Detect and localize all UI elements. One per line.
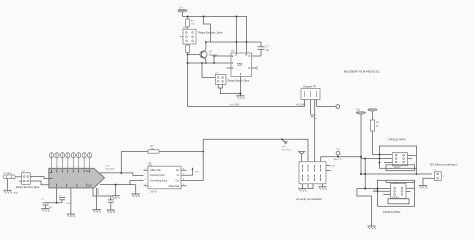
svg-text:Offset Null: Offset Null — [169, 185, 180, 188]
transistor Q3 TIP32C body — [391, 182, 407, 199]
node output junctions — [360, 173, 362, 175]
wire third npn entry — [384, 162, 392, 164]
capacitor C1 10n — [256, 42, 271, 56]
svg-text:+V: +V — [176, 175, 179, 177]
wire R2 down to node — [187, 53, 189, 64]
ground under capsule — [3, 190, 11, 193]
svg-text:Gray 908: Gray 908 — [105, 167, 115, 170]
node gnd junction — [239, 93, 241, 95]
wire out vertical — [202, 139, 204, 180]
wire gnd drop mid — [115, 185, 117, 196]
wire chain down to A-LOAD rail — [187, 63, 189, 107]
svg-text:2: 2 — [56, 166, 57, 168]
wire R1 to RV1 — [187, 27, 189, 29]
svg-text:12V: 12V — [356, 110, 361, 112]
node feedback tap — [120, 172, 122, 174]
wire top rail — [183, 16, 248, 18]
test point circle TP2 — [334, 149, 342, 161]
svg-text:Rotary/Switch_Spee: Rotary/Switch_Spee — [228, 80, 250, 83]
capacitor C2 — [41, 199, 53, 209]
wire power B stem — [372, 111, 374, 120]
svg-text:Q?: Q? — [395, 154, 398, 156]
pin stub op-amp nc — [181, 169, 187, 171]
wire npn loop to output — [416, 168, 418, 174]
svg-text:Rotary Encoder_Spee: Rotary Encoder_Spee — [16, 186, 40, 189]
svg-text:8: 8 — [89, 166, 90, 168]
ground pin2 — [67, 214, 75, 217]
wire switch to gnd row — [220, 88, 240, 94]
pin stub comparator right B — [326, 171, 333, 173]
svg-text:1: 1 — [51, 166, 52, 168]
resistor R4 1k — [370, 120, 379, 131]
comparator U5 box — [296, 162, 326, 201]
svg-text:12V: 12V — [195, 172, 199, 174]
svg-text:op-amp comparator: op-amp comparator — [296, 197, 322, 201]
node base B — [364, 158, 366, 160]
wire rail to R1 — [187, 17, 189, 20]
node emitter junction — [205, 62, 207, 64]
svg-text:4: 4 — [67, 166, 68, 168]
wiper flag symbol — [311, 114, 317, 120]
wire pot to terminal — [317, 106, 336, 108]
pin stub op-amp 5 — [181, 185, 187, 187]
capacitor C3 — [59, 196, 72, 205]
svg-text:LM741: LM741 — [150, 191, 158, 193]
wire R4 down — [372, 131, 374, 155]
wire R4 to npn — [373, 154, 393, 156]
switch SW1 box — [215, 73, 250, 85]
ground under C4 — [107, 210, 115, 213]
capacitor C4 — [108, 198, 117, 210]
wire comparator mid U — [308, 184, 313, 189]
svg-text:TIP32C-PNP: TIP32C-PNP — [383, 210, 400, 214]
svg-text:Test Point: Test Point — [282, 148, 292, 151]
analog flag on comparator pin1 — [299, 152, 305, 162]
svg-text:A-LOAD: A-LOAD — [296, 103, 306, 106]
wire cap row — [46, 202, 63, 204]
wire pot pin right down — [314, 100, 316, 162]
encoder U3 box — [16, 171, 40, 189]
terminal circle — [336, 105, 340, 109]
wire pin7 to power — [181, 174, 193, 176]
node chain junction — [187, 62, 189, 64]
wire encoder to mcu B — [30, 181, 49, 185]
wire pnp sub loop — [388, 199, 409, 204]
pin stubs op-amp left — [144, 169, 149, 171]
wire mcu out top to opamp — [100, 173, 144, 176]
transistor Q1 2N2222 — [200, 50, 218, 60]
potentiometer RV1 Rotary Encoder_Speed — [180, 28, 223, 44]
wire down to switch row — [202, 63, 215, 78]
node pnp bottom — [377, 188, 379, 190]
wire mcu bottom pin4 to C4 — [93, 188, 111, 200]
wire pnp exits — [406, 187, 415, 189]
svg-text:3: 3 — [62, 166, 63, 168]
power symbol 12V A — [356, 110, 366, 115]
wire RV1 to R2 — [187, 44, 189, 45]
ground mid — [111, 196, 119, 199]
wire mcu bottom pin2 — [70, 188, 72, 214]
potentiometer RV2 Comper TP — [301, 84, 320, 99]
svg-text:NC: NC — [176, 170, 180, 172]
power symbol +12V top — [178, 8, 187, 12]
wire npn exits right — [408, 154, 417, 156]
svg-text:After TP: After TP — [334, 158, 342, 161]
wire comparator gnd right — [322, 184, 324, 187]
node test point junction — [281, 138, 283, 140]
node junction rail B — [236, 16, 238, 18]
node trigger tap — [213, 62, 215, 64]
svg-text:TIP31C: TIP31C — [394, 167, 402, 169]
svg-text:ROTARY: ROTARY — [4, 172, 13, 175]
wire comparator out up — [321, 157, 361, 162]
wire trigger row y63 — [188, 62, 232, 64]
node switch row tap — [201, 62, 203, 64]
ground comparator right — [318, 187, 326, 190]
node y56 tap — [213, 55, 215, 57]
indicator balloons row — [49, 153, 91, 158]
node pin4 mid rail — [236, 41, 238, 43]
svg-text:6: 6 — [78, 166, 79, 168]
ground right — [132, 194, 140, 197]
wire comparator drive down — [364, 159, 366, 189]
svg-text:555: 555 — [237, 63, 243, 67]
resistor R1 10k — [186, 19, 196, 27]
svg-text:N-Inverting Input: N-Inverting Input — [150, 180, 167, 183]
wire pnp entry top — [373, 190, 391, 192]
wire 555 pin8 drop — [246, 17, 248, 54]
wire capsule gnd drop — [7, 179, 9, 191]
ground under 555 — [236, 96, 244, 99]
wire base row to npn — [361, 158, 392, 160]
node collector on mid rail — [205, 41, 207, 43]
svg-text:Offset Null: Offset Null — [150, 169, 161, 172]
wire feedback top row — [121, 151, 148, 153]
wire comparator gnd left — [302, 184, 304, 189]
ground comparator left — [298, 189, 306, 192]
svg-text:E/D: E/D — [88, 186, 92, 188]
mcu U1 arrow body — [49, 168, 105, 188]
wire mcu out bottom to opamp — [100, 184, 136, 186]
op-amp U4 741 — [148, 163, 181, 193]
pin stub comparator right A — [326, 166, 335, 168]
svg-text:A-LOAD: A-LOAD — [230, 103, 240, 106]
ground connector — [419, 186, 427, 189]
ground under mcu left — [97, 188, 99, 195]
wire power A stem — [360, 114, 362, 174]
net flag on pin3 — [256, 66, 259, 69]
svg-text:DC Motor connector: DC Motor connector — [430, 163, 457, 167]
node base A — [360, 156, 362, 158]
wire feedback vertical — [120, 152, 122, 173]
wire mid rail y42 — [206, 41, 261, 43]
wire R3 to out node — [159, 151, 203, 153]
motor connector J2 — [432, 170, 445, 181]
wire mcu bottom pin3 — [96, 188, 98, 210]
wire balloon stems — [52, 158, 90, 168]
wire pnp outer loop — [378, 180, 415, 206]
wire base of Q1 — [188, 54, 201, 56]
svg-text:Inverting Input: Inverting Input — [150, 174, 165, 177]
wire jog to pin3 — [130, 181, 144, 185]
power arrow 12V — [192, 167, 200, 175]
wire down to comparator pin — [307, 139, 309, 162]
node gnd tap — [115, 184, 117, 186]
node base junction — [187, 54, 189, 56]
connector J1 capsule — [3, 172, 15, 179]
wire jog from rail A — [204, 17, 211, 43]
wire 555 pin1 down — [239, 76, 241, 95]
wire power stem — [182, 12, 184, 17]
wire gnd drop right — [135, 185, 137, 194]
node pin8 mid rail — [246, 41, 248, 43]
transistor Q2 TIP31C body — [392, 153, 407, 169]
ground bottom — [367, 226, 375, 229]
node out junction — [202, 151, 204, 153]
resistor R2 — [186, 45, 190, 53]
wire drive to pnp — [357, 188, 391, 190]
svg-text:TIP31C-NPN: TIP31C-NPN — [388, 138, 406, 142]
node cap row junction — [56, 202, 58, 204]
wire pot pin left down — [304, 100, 306, 107]
svg-text:5: 5 — [73, 166, 74, 168]
svg-text:12V: 12V — [179, 8, 183, 10]
svg-text:Out: Out — [175, 180, 179, 183]
wire npn sub loop — [386, 165, 414, 171]
wire out top run — [203, 138, 308, 140]
wire pnp entry low — [384, 194, 391, 196]
test point probe — [282, 139, 292, 151]
svg-text:7: 7 — [83, 166, 84, 168]
ground under C2 — [41, 209, 49, 212]
wire pin6 out — [181, 180, 203, 182]
wire mcu bottom pin1 — [56, 188, 58, 203]
wire A-LOAD rail — [188, 106, 305, 108]
svg-text:5.0V: 5.0V — [105, 165, 110, 167]
node junction rail A — [203, 16, 205, 18]
wire 555 pin tap vertical — [213, 56, 215, 63]
wire 555 pin4 drop — [236, 17, 238, 54]
svg-text:Comper TP: Comper TP — [303, 84, 316, 88]
wire npn outer loop — [380, 146, 417, 168]
wire 555 pin6 row y56 — [214, 55, 231, 57]
wire collector up — [205, 42, 207, 50]
wire 555 pin3 stub — [252, 67, 256, 69]
wire emitter down — [205, 59, 207, 63]
wire encoder to mcu A — [30, 177, 49, 179]
pin number row — [51, 166, 90, 168]
node loop entries — [379, 154, 381, 156]
wire pot pin mid down — [310, 100, 312, 115]
svg-text:GND: GND — [14, 192, 19, 194]
ground pin3 — [92, 210, 100, 213]
svg-text:MALSBURY W M 4400SS SC: MALSBURY W M 4400SS SC — [344, 70, 380, 74]
svg-text:set: set — [314, 117, 317, 120]
wire switch pins down — [218, 84, 222, 88]
node pnp entries — [377, 190, 379, 192]
wire pnp emitter gnd — [371, 196, 373, 226]
wire 555 pin7 stub — [252, 55, 256, 57]
timer U2 555 — [227, 51, 252, 77]
wire connector pin2 to gnd — [423, 178, 432, 185]
power symbol 12V B — [368, 109, 377, 112]
wire capsule to encoder — [15, 176, 21, 178]
wire output row to motor — [361, 173, 432, 175]
resistor R3 10k — [148, 146, 159, 153]
